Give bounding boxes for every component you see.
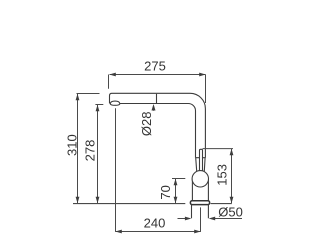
dimension Ø28 leader line — [153, 109, 155, 111]
body cylinder — [192, 179, 208, 201]
wand taper lines — [196, 158, 205, 172]
dimension 240 extension left — [115, 108, 117, 232]
svg-text:70: 70 — [158, 185, 173, 199]
shank below counter — [192, 205, 209, 219]
dimension Ø28 arrow — [152, 104, 156, 111]
dimension 240 left arrow — [115, 230, 122, 234]
dimension 278 extension — [95, 104, 103, 106]
hose stem — [200, 149, 203, 171]
counter line right — [211, 203, 232, 205]
dimension 70 top arrow — [174, 179, 178, 186]
dimension Ø50 right leader — [211, 218, 242, 220]
ball joint — [192, 171, 208, 187]
base flange — [190, 201, 209, 205]
dimension 153 bottom arrow — [230, 197, 234, 204]
dimension 275 extension left — [108, 75, 110, 89]
dimension 310 extension — [77, 93, 100, 95]
dimension 310 bottom arrow — [76, 197, 80, 204]
dimension 275 left arrow — [109, 73, 116, 77]
spout tube inner profile — [110, 104, 196, 158]
svg-text:310: 310 — [64, 134, 79, 156]
dimension 240 line — [116, 231, 201, 233]
svg-text:278: 278 — [83, 140, 98, 162]
dimension 153 top arrow — [230, 149, 234, 156]
counter line left — [73, 203, 185, 205]
dimension 310 line — [77, 94, 79, 203]
dimension 275 line — [110, 74, 206, 76]
svg-text:240: 240 — [144, 216, 166, 231]
svg-text:Ø50: Ø50 — [218, 204, 243, 219]
dimension 275 right arrow — [199, 73, 206, 77]
dimension 153 extension — [203, 148, 234, 150]
spout joint line — [156, 94, 158, 103]
dimension 240 right arrow — [194, 230, 201, 234]
dimension 275 extension right — [205, 75, 207, 104]
dimension 70 bottom arrow — [174, 197, 178, 204]
dimension Ø50 right arrow — [209, 217, 216, 221]
svg-text:275: 275 — [144, 58, 166, 73]
dimension 153 line — [231, 149, 233, 203]
dimension 310 top arrow — [76, 94, 80, 101]
dimension 278 line — [97, 105, 99, 203]
svg-text:153: 153 — [215, 164, 230, 186]
tube end ticks — [196, 157, 206, 159]
dimension Ø50 left leader — [178, 218, 190, 220]
spout tube outer profile — [110, 93, 206, 157]
aerator outlet — [110, 101, 120, 105]
dimension 278 bottom arrow — [96, 197, 100, 204]
dimension 278 top arrow — [96, 105, 100, 112]
dimension 70 extension — [172, 178, 185, 180]
dimension 70 line — [175, 179, 177, 203]
svg-text:Ø28: Ø28 — [139, 112, 154, 137]
dimension 240 extension right — [200, 207, 202, 232]
dimension Ø50 left arrow — [185, 217, 192, 221]
